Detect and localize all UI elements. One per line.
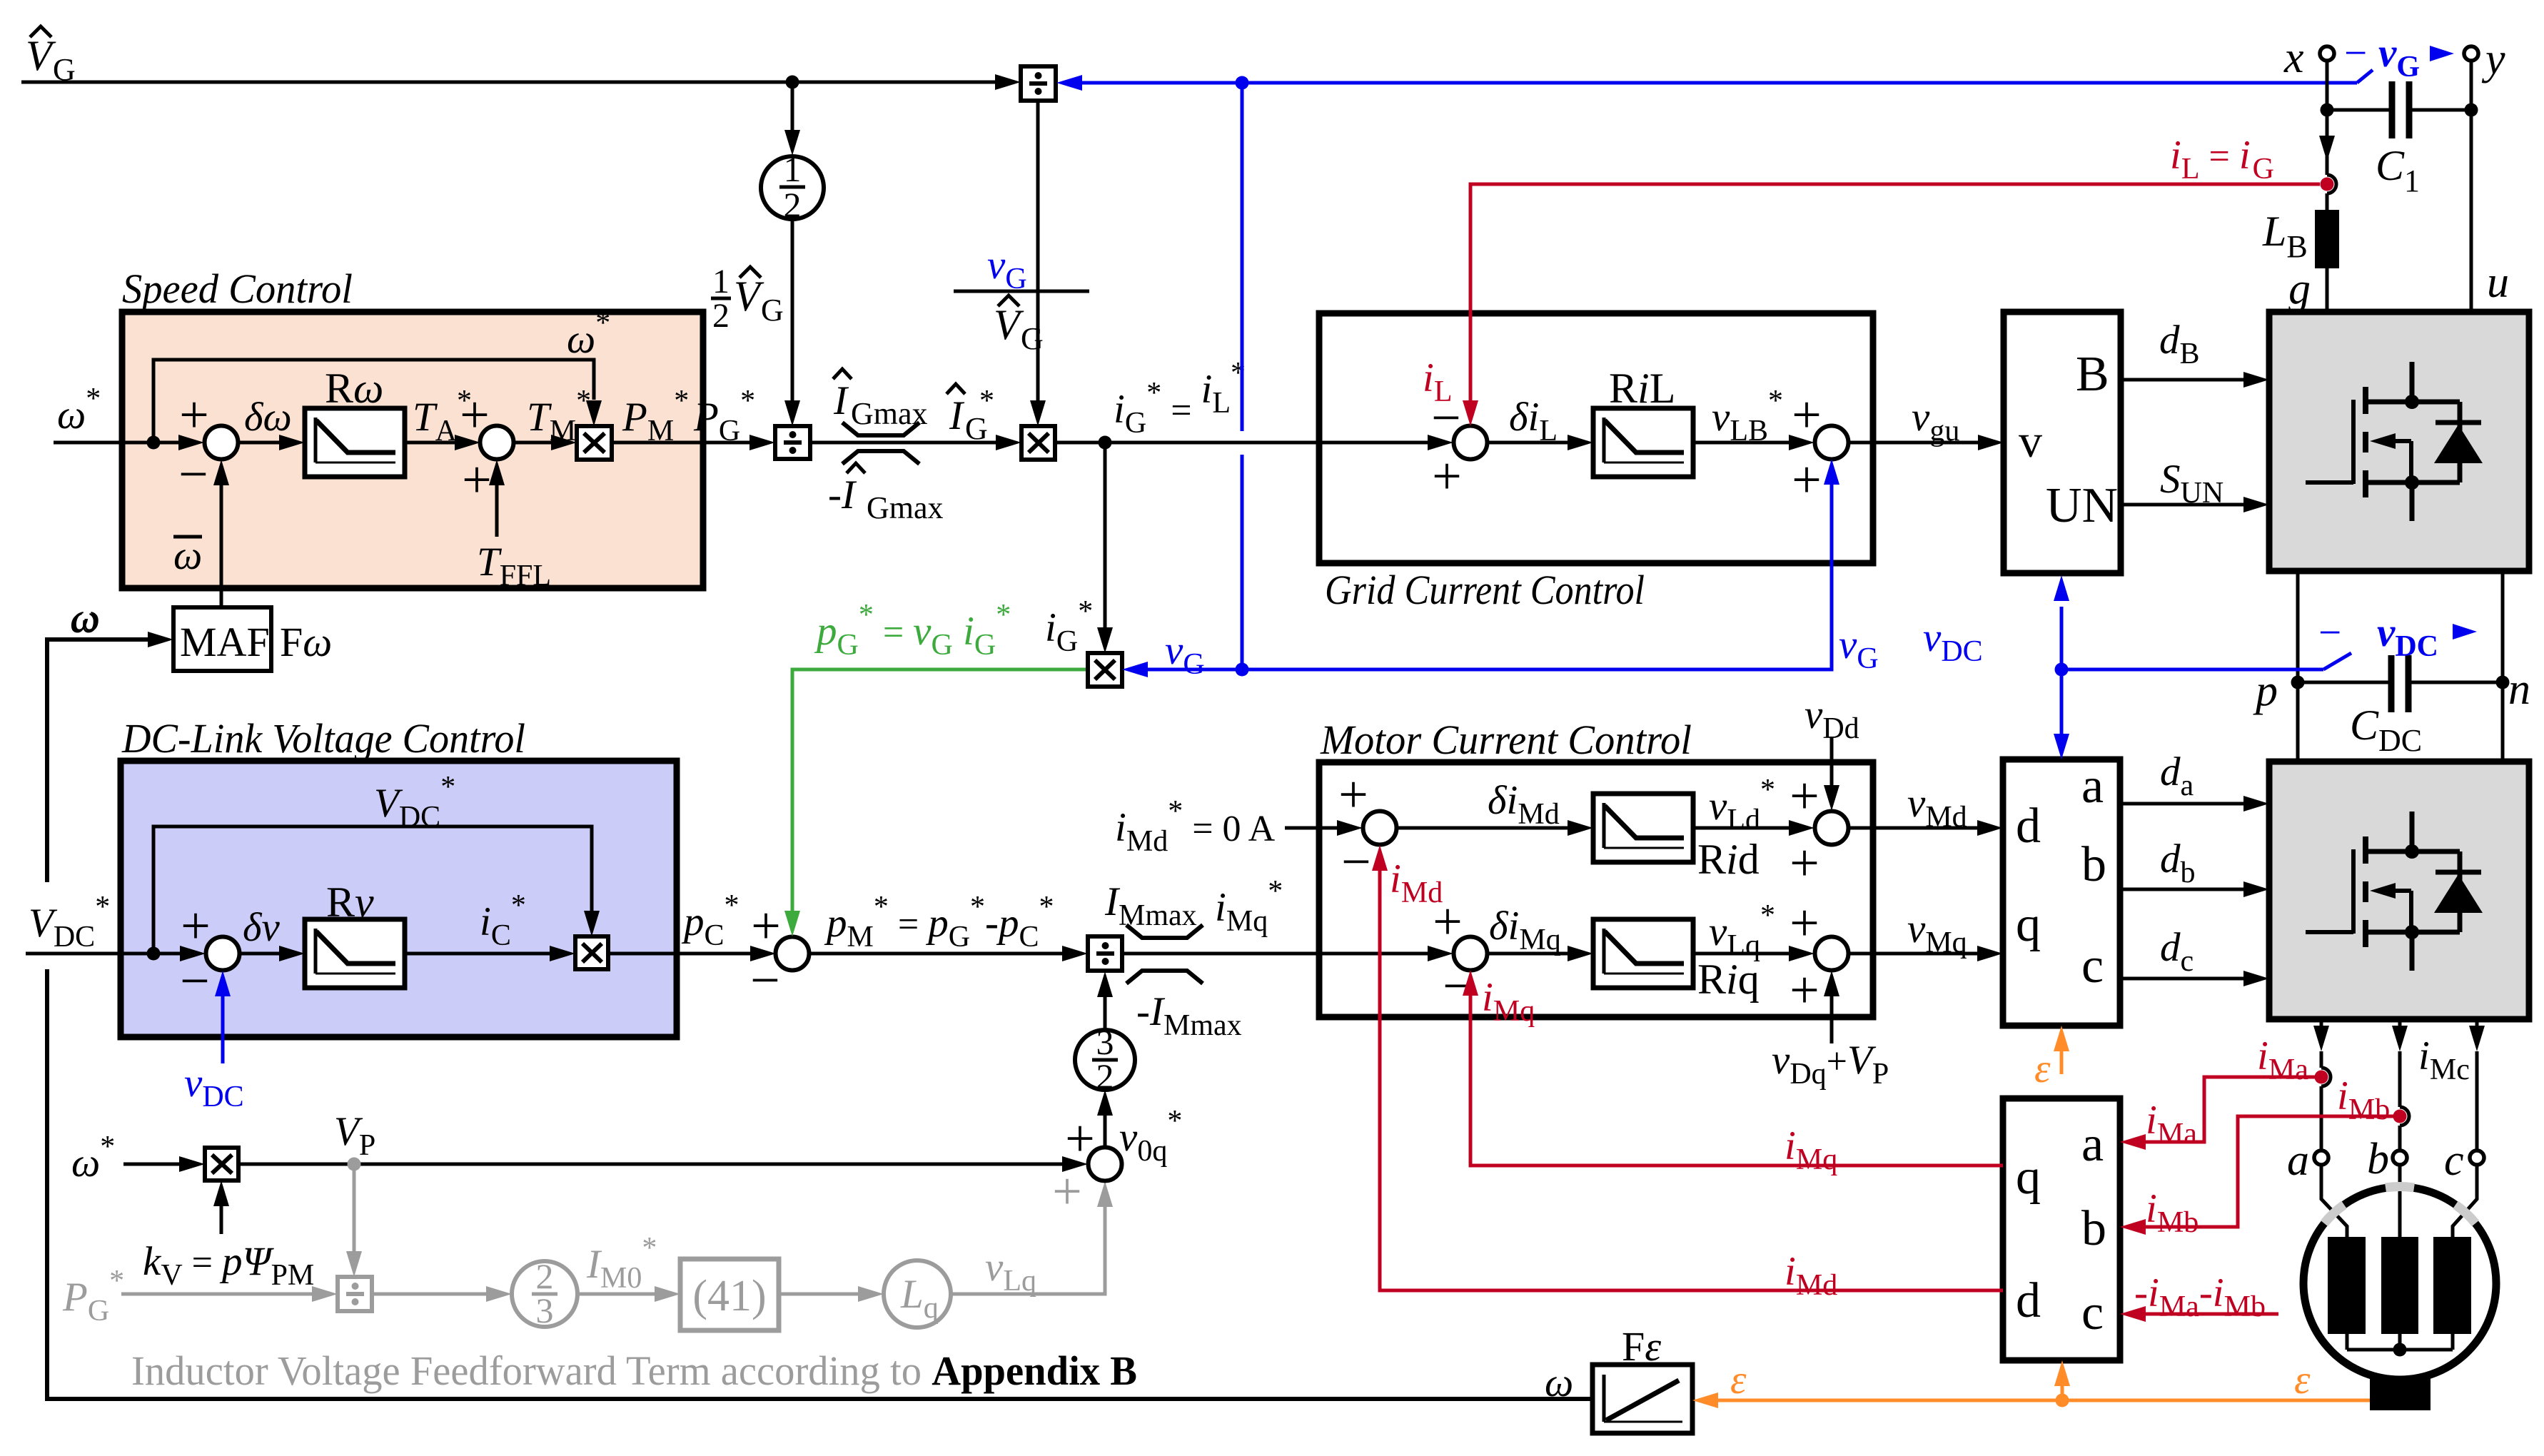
- wire S_UN: [2121, 457, 2269, 512]
- terminal b: [2367, 1135, 2407, 1183]
- terminal x: [2283, 34, 2334, 82]
- svg-text:Motor Current Control: Motor Current Control: [1320, 717, 1692, 763]
- capacitor CDC: [2298, 655, 2503, 758]
- svg-text:p: p: [2253, 667, 2278, 715]
- svg-text:b: b: [2081, 1201, 2106, 1256]
- svg-text:δω: δω: [244, 395, 292, 440]
- transistor/diode symbol converter 2: [2306, 812, 2483, 971]
- wire VDC* input: [26, 946, 206, 961]
- svg-text:Gmax: Gmax: [851, 396, 928, 431]
- label omega MAF: [70, 597, 99, 642]
- svg-text:+: +: [1790, 894, 1819, 953]
- svg-text:+: +: [460, 386, 490, 445]
- label Speed Control: [122, 266, 353, 312]
- modulator v/UN box: [2004, 312, 2121, 573]
- label VDC* input: [29, 891, 110, 954]
- svg-text:−: −: [180, 952, 210, 1011]
- wire pG* green: [784, 599, 1088, 936]
- label omega-bar: [173, 533, 202, 578]
- wire pM*: [809, 891, 1088, 961]
- svg-text:+: +: [1792, 451, 1822, 510]
- summing junction iMd: [1338, 766, 1396, 891]
- wire v0q* up: [1097, 1090, 1182, 1168]
- wire vG to grid summer: [1242, 459, 1879, 675]
- wire d_B: [2121, 318, 2269, 388]
- wire delta-iL: [1488, 395, 1593, 450]
- svg-text:G: G: [761, 293, 784, 328]
- wire iMb red: [2120, 1073, 2400, 1239]
- wire omega return: [47, 632, 1592, 1399]
- terminal y: [2464, 35, 2505, 84]
- svg-text:+: +: [1065, 1110, 1095, 1168]
- svg-text:+: +: [181, 897, 211, 956]
- wire omega* to multiplier: [123, 1156, 205, 1172]
- svg-text:c: c: [2444, 1136, 2464, 1185]
- svg-text:−: −: [2344, 31, 2367, 76]
- svg-text:V: V: [734, 273, 764, 320]
- motor winding a: [2328, 1237, 2366, 1334]
- node y-C1: [2465, 103, 2478, 117]
- svg-text:(41): (41): [692, 1272, 766, 1320]
- saturation limits IGmax: [828, 369, 944, 525]
- label iMc: [2418, 1033, 2470, 1086]
- wire phase c from converter: [2453, 1019, 2485, 1237]
- node p: [2253, 667, 2305, 715]
- wire epsilon stub modulator: [2034, 1026, 2069, 1091]
- wire vLd*: [1693, 774, 1814, 836]
- wire kV into multiplier: [143, 1181, 314, 1292]
- motor winding c: [2433, 1237, 2471, 1334]
- summing junction dc-link: [180, 897, 239, 1011]
- encoder: [2370, 1377, 2431, 1410]
- svg-text:+: +: [462, 451, 492, 510]
- label vG over VG-hat: [954, 243, 1089, 356]
- wire vMq: [1849, 906, 2003, 961]
- svg-text:ε: ε: [2034, 1046, 2051, 1091]
- summing junction speed: [178, 386, 238, 504]
- wire PG* gray: [121, 1286, 338, 1302]
- wire VG-hat top: [21, 74, 1021, 90]
- wire phase b from converter: [2392, 1019, 2409, 1237]
- saturation limits IMmax: [1104, 879, 1242, 1042]
- motor star point wiring: [2347, 1334, 2453, 1357]
- speed control shaded box: [122, 312, 703, 588]
- svg-text:+: +: [751, 897, 781, 956]
- wire pC*: [608, 889, 776, 961]
- svg-text:Inductor Voltage Feedforward T: Inductor Voltage Feedforward Term accord…: [131, 1348, 1137, 1394]
- divider block top: [1021, 66, 1056, 101]
- wire delta-v: [240, 905, 305, 961]
- svg-text:v: v: [2019, 415, 2042, 467]
- node epsilon orange: [2056, 1394, 2069, 1407]
- summing junction grid current: [1431, 389, 1487, 506]
- MAF filter box: [173, 607, 332, 671]
- label PG* gray: [62, 1265, 124, 1328]
- capacitor C1: [2327, 81, 2471, 198]
- svg-text:3: 3: [536, 1290, 554, 1330]
- svg-text:2: 2: [712, 297, 730, 335]
- wire iMd red feedback: [1372, 845, 2003, 1302]
- svg-text:DC-Link Voltage Control: DC-Link Voltage Control: [121, 715, 525, 762]
- wire iC*: [405, 889, 575, 961]
- wire vDC into junction: [184, 971, 244, 1113]
- summing junction vgu: [1792, 386, 1848, 510]
- label epsilon left orange: [1730, 1358, 1747, 1402]
- label vDC blue: [1923, 615, 1983, 668]
- wire VP row: [238, 1109, 1088, 1172]
- dc-link voltage control shaded box: [121, 761, 677, 1037]
- svg-text:Rid: Rid: [1697, 836, 1760, 883]
- wire omega* feedforward: [153, 307, 610, 443]
- summing junction pM: [750, 897, 809, 1010]
- svg-text:Fε: Fε: [1622, 1323, 1661, 1370]
- svg-text:ω: ω: [70, 597, 99, 642]
- wire TA*: [405, 385, 480, 450]
- gain block 3/2: [1075, 1022, 1135, 1096]
- svg-text:+: +: [1052, 1163, 1082, 1221]
- label inductor voltage feedforward: [131, 1348, 1137, 1394]
- controller R-omega: [305, 365, 405, 477]
- wire iMq*: [1122, 875, 1453, 961]
- wire d_b: [2120, 836, 2269, 897]
- multiplier pG green: [1088, 653, 1122, 687]
- label Grid Current Control: [1325, 567, 1645, 613]
- svg-text:-I: -I: [828, 472, 857, 517]
- svg-text:V: V: [994, 301, 1024, 348]
- wire vDC vertical double arrow blue: [2054, 575, 2069, 759]
- terminal c: [2444, 1136, 2484, 1185]
- svg-text:u: u: [2487, 258, 2509, 307]
- svg-text:Rv: Rv: [326, 879, 374, 926]
- wire delta-omega: [238, 395, 305, 450]
- label iL=iG red: [2170, 133, 2274, 186]
- wire TM*: [514, 385, 591, 450]
- wire vDq+VP: [1772, 971, 1889, 1091]
- block (41) gray: [680, 1259, 779, 1330]
- wire to gain 2/3 gray: [372, 1286, 512, 1302]
- svg-text:−: −: [2318, 610, 2341, 655]
- wire vG measurement blue top: [1056, 70, 2373, 91]
- multiplier VP: [205, 1148, 238, 1181]
- wire VDC* feedforward: [153, 771, 600, 954]
- wire iMq red feedback: [1463, 970, 2003, 1176]
- multiplier pC*: [575, 936, 608, 969]
- wire vLB*: [1693, 385, 1814, 450]
- svg-text:B: B: [2076, 347, 2109, 402]
- svg-text:Gmax: Gmax: [867, 490, 944, 525]
- svg-text:Fω: Fω: [280, 619, 332, 665]
- summing junction v0q: [1065, 1110, 1121, 1181]
- node iMa red: [2315, 1071, 2328, 1084]
- transistor/diode symbol converter 1: [2306, 362, 2483, 521]
- node n: [2496, 665, 2531, 714]
- wire y down: [2470, 61, 2473, 312]
- wire down to half gain: [784, 82, 800, 156]
- label iL red: [1423, 355, 1453, 408]
- node VP takeoff: [348, 1158, 361, 1171]
- inductor LB: [2262, 208, 2339, 268]
- wire vMd: [1849, 781, 2003, 836]
- label epsilon right orange: [2294, 1358, 2311, 1402]
- wire VP down gray: [346, 1164, 362, 1277]
- wire PM* to divider: [612, 385, 775, 450]
- converter 2 (motor-side bridge) gray box: [2269, 762, 2529, 1019]
- svg-text:+: +: [1432, 448, 1462, 506]
- svg-text:*: *: [979, 385, 994, 418]
- abc-dq transform box: [2003, 1098, 2120, 1360]
- wire vG vertical blue: [1241, 83, 1244, 669]
- label DC-Link Voltage Control: [121, 715, 525, 762]
- svg-text:1: 1: [712, 263, 730, 300]
- label -vDC-> blue: [2318, 610, 2477, 663]
- wire vG/VG-hat down: [1030, 101, 1046, 426]
- svg-text:−: −: [750, 951, 780, 1010]
- divider block row1: [775, 426, 810, 459]
- wire x down: [2319, 61, 2336, 312]
- svg-text:I: I: [833, 378, 849, 423]
- wire vLq gray: [951, 1163, 1113, 1298]
- divider block row2: [1088, 936, 1122, 971]
- svg-text:q: q: [2016, 1150, 2041, 1205]
- svg-text:UN: UN: [2046, 478, 2118, 533]
- summing junction vMd: [1790, 767, 1848, 893]
- svg-text:I: I: [949, 393, 965, 438]
- svg-text:1: 1: [784, 149, 802, 189]
- wire d_c: [2120, 925, 2269, 986]
- node iG* takeoff: [1099, 436, 1112, 450]
- node x-C1: [2321, 103, 2334, 117]
- svg-text:+: +: [1338, 766, 1368, 824]
- gain block 1/2: [761, 149, 824, 225]
- svg-text:+: +: [1792, 386, 1822, 445]
- svg-text:Rω: Rω: [325, 365, 383, 412]
- svg-text:c: c: [2081, 939, 2104, 994]
- svg-text:g: g: [2288, 265, 2311, 313]
- svg-text:Riq: Riq: [1697, 956, 1760, 1003]
- wire iMd*: [1285, 820, 1363, 836]
- wire omega-bar up from MAF: [213, 460, 229, 607]
- svg-text:q: q: [2016, 897, 2041, 952]
- wire delta-iMq: [1488, 904, 1593, 961]
- summing junction vMq: [1790, 894, 1848, 1020]
- svg-text:MAF: MAF: [180, 619, 270, 665]
- grid current control box: [1319, 313, 1873, 563]
- wire to Lq gray: [779, 1286, 884, 1302]
- wire iG* down to multiplier: [1045, 443, 1113, 658]
- controller RiL: [1593, 365, 1693, 477]
- svg-text:c: c: [2081, 1285, 2104, 1340]
- wire omega* input: [54, 435, 204, 450]
- wire delta-iMd: [1397, 778, 1593, 836]
- label u: [2487, 258, 2509, 307]
- dq-abc modulator box: [2003, 759, 2120, 1026]
- svg-text:G: G: [1021, 321, 1044, 356]
- label -vG-> blue: [2344, 31, 2454, 84]
- controller Rid: [1593, 794, 1760, 883]
- gain block Lq gray: [884, 1260, 951, 1328]
- wire half-VG down: [784, 219, 800, 426]
- multiplier PM: [577, 426, 612, 460]
- svg-text:−: −: [1341, 833, 1371, 891]
- node on VG-hat wire: [786, 76, 799, 89]
- terminal a: [2287, 1136, 2328, 1185]
- svg-text:a: a: [2081, 759, 2104, 814]
- motor stator circle: [2303, 1187, 2496, 1380]
- svg-text:2: 2: [784, 185, 802, 225]
- node vDC blue: [2055, 663, 2069, 677]
- svg-text:Speed Control: Speed Control: [122, 266, 353, 312]
- svg-text:x: x: [2283, 34, 2304, 82]
- wire iG*=iL*: [1055, 357, 1453, 450]
- label iMd*=0A: [1115, 795, 1276, 858]
- gain 3/2 into divider: [1097, 971, 1113, 1030]
- svg-text:y: y: [2481, 35, 2505, 84]
- filter F-epsilon box: [1592, 1323, 1692, 1433]
- wire IG-hat*: [810, 384, 1021, 450]
- wire -iMa-iMb red: [2120, 1270, 2278, 1323]
- motor current control box: [1319, 762, 1873, 1017]
- svg-text:b: b: [2367, 1135, 2389, 1183]
- node vG: [1236, 663, 1249, 677]
- wire epsilon up to transform: [2054, 1360, 2070, 1400]
- wire d_a: [2120, 749, 2269, 812]
- svg-text:a: a: [2287, 1136, 2309, 1185]
- wire vDC measurement blue: [2061, 653, 2351, 669]
- gain block 2/3 gray: [512, 1256, 577, 1330]
- svg-text:−: −: [178, 445, 208, 504]
- controller Rv: [305, 879, 405, 988]
- label omega* input: [57, 383, 101, 438]
- label half VG-hat: [711, 263, 784, 335]
- summing junction torque: [460, 386, 513, 510]
- svg-text:δv: δv: [243, 905, 280, 950]
- wire vLq*: [1693, 899, 1814, 962]
- wire iMa red: [2120, 1033, 2321, 1151]
- label VG-hat input: [26, 26, 76, 87]
- svg-text:d: d: [2016, 799, 2041, 854]
- summing junction iMq: [1433, 893, 1487, 1016]
- svg-text:+: +: [179, 386, 209, 445]
- wire vG into multiplier: [1122, 628, 1242, 681]
- svg-text:+: +: [1790, 767, 1819, 826]
- wire TFFL up: [477, 460, 551, 592]
- wire iL red feedback: [1463, 184, 2320, 426]
- svg-text:Grid Current Control: Grid Current Control: [1325, 567, 1645, 613]
- svg-text:a: a: [2081, 1117, 2104, 1172]
- wire n: [2501, 571, 2505, 762]
- svg-text:+: +: [1790, 834, 1819, 893]
- svg-text:b: b: [2081, 837, 2106, 892]
- svg-text:d: d: [2016, 1273, 2041, 1328]
- svg-text:V: V: [26, 32, 56, 79]
- motor winding b: [2381, 1237, 2418, 1334]
- node iG measurement red: [2321, 178, 2334, 191]
- multiplier iG*: [1021, 426, 1055, 460]
- node omega* takeoff: [147, 436, 161, 450]
- converter 1 (grid-side bridge) gray box: [2269, 312, 2529, 571]
- wire epsilon orange bus: [1692, 1392, 2370, 1408]
- label Motor Current Control: [1320, 717, 1692, 763]
- svg-text:n: n: [2508, 665, 2530, 714]
- svg-text:+: +: [1790, 961, 1819, 1020]
- wire vDd: [1804, 692, 1859, 811]
- label omega Fepsilon: [1545, 1360, 1573, 1405]
- wire omega into MAF: [71, 595, 100, 640]
- wire phase a from converter: [2313, 1019, 2347, 1237]
- divider gray: [338, 1277, 372, 1311]
- svg-text:ω: ω: [1545, 1360, 1573, 1405]
- svg-text:ε: ε: [1730, 1358, 1747, 1402]
- node vG blue top: [1236, 76, 1249, 90]
- wire vgu: [1849, 395, 2004, 450]
- label g: [2288, 265, 2311, 313]
- node iMb red: [2393, 1110, 2407, 1123]
- label omega* bottom: [71, 1131, 115, 1185]
- wire IM0* gray: [577, 1232, 680, 1302]
- svg-text:RiL: RiL: [1609, 365, 1675, 412]
- svg-text:ε: ε: [2294, 1358, 2311, 1402]
- wire p: [2296, 571, 2300, 762]
- node VDC* takeoff: [147, 947, 161, 961]
- controller Riq: [1593, 919, 1760, 1003]
- svg-text:ω: ω: [173, 533, 202, 578]
